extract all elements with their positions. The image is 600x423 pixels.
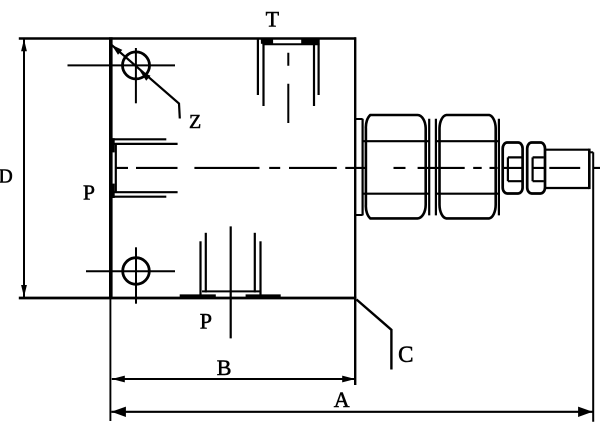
hole crosshair vertical (top) (135, 48, 137, 103)
dimension D line (23, 39, 25, 299)
hex nut 1 lower facet line (363, 193, 430, 195)
port P (left) lower outer line (112, 196, 167, 198)
hex nut 1 neck top (355, 118, 363, 120)
svg-text:C: C (398, 342, 413, 367)
port T centerline (287, 53, 289, 123)
valve body top edge (19, 37, 356, 39)
small hex 2 outline (527, 143, 545, 194)
port T surface seam right (301, 39, 318, 44)
small hex 2 facet edge (531, 157, 533, 181)
port P (left) face seam upper (112, 138, 115, 152)
small hex 1 facet edge (507, 157, 509, 181)
valve body left edge (109, 37, 113, 298)
hex nut 2 upper facet line (436, 140, 499, 142)
dimension A arrow right (578, 407, 593, 417)
mounting hole (top) (123, 52, 150, 79)
port P (left) upper counterbore line (112, 143, 178, 145)
svg-text:T: T (266, 7, 280, 32)
hex nut 1 right face (428, 119, 430, 216)
svg-text:A: A (334, 387, 350, 412)
port T counterbore-left wall (262, 44, 264, 107)
port P (bottom) outer-left wall (199, 241, 201, 294)
hole crosshair horizontal (top) (68, 64, 176, 66)
port T outer-right wall (318, 39, 320, 95)
dimension B arrow left (112, 376, 125, 383)
hex nut 2 right face (498, 119, 500, 216)
hole crosshair horizontal (bottom) (86, 270, 175, 272)
hex nut 2 left face (435, 119, 437, 216)
svg-text:P: P (200, 309, 212, 334)
leader Z dimension line (112, 45, 180, 119)
stem rod end step (589, 151, 593, 153)
port P (left) face seam lower (112, 184, 115, 198)
port P (bottom) centerline (230, 226, 232, 338)
hole crosshair vertical (bottom) (135, 247, 137, 303)
port T counterbore shoulder (262, 43, 319, 45)
leader C line (357, 300, 392, 370)
svg-text:D: D (0, 166, 13, 187)
small hex 1 facet lines (508, 157, 522, 181)
small hex 2 facet lines (533, 157, 544, 181)
port T surface seam left (261, 39, 273, 44)
svg-text:B: B (217, 355, 232, 380)
port P (left) lower counterbore line (112, 191, 178, 193)
hex nut 1 neck bottom (355, 214, 363, 216)
svg-text:P: P (83, 181, 95, 205)
main horizontal centerline (117, 167, 600, 169)
hex nut 2 lower facet line (436, 193, 499, 195)
left edge extension line (B/A dimension) (109, 299, 111, 422)
port P (bottom) outer-right wall (259, 241, 261, 294)
small hex 1 outline (503, 143, 523, 194)
dimension D arrow down (21, 285, 27, 297)
port P (bottom) surface seam right (246, 294, 281, 297)
port P (bottom) counterbore shoulder (202, 290, 260, 292)
dimension A right extension line (592, 152, 594, 421)
dimension B arrow right (342, 376, 355, 383)
stem rod end cap (588, 149, 591, 190)
hex nut 1 left face (362, 119, 364, 216)
port P (bottom) counterbore-right wall (254, 233, 256, 293)
dimension A arrow left (111, 407, 126, 417)
mounting hole (bottom) (123, 258, 150, 285)
dimension D arrow up (21, 39, 27, 51)
hex nut 1 upper facet line (363, 140, 430, 142)
port P (bottom) surface seam left (180, 294, 216, 297)
dimension A line (111, 411, 592, 413)
valve body bottom edge (19, 297, 357, 300)
port P (left) shoulder (115, 144, 117, 192)
port T outer-left wall (257, 39, 259, 95)
dimension B line (112, 378, 355, 380)
valve body right edge (extends down as B extension line) (354, 37, 356, 385)
port T counterbore-right wall (313, 44, 315, 107)
stem rod top line (545, 149, 589, 151)
hex nut 2 outline (440, 115, 496, 218)
port P (bottom) counterbore-left wall (205, 233, 207, 293)
port P (left) upper outer line (112, 138, 167, 140)
stem rod bottom line (545, 187, 589, 189)
leader Z arrowhead upper (112, 45, 123, 55)
leader Z arrowhead lower (140, 71, 151, 81)
svg-text:Z: Z (189, 111, 201, 133)
hex nut 1 outline (366, 115, 426, 218)
